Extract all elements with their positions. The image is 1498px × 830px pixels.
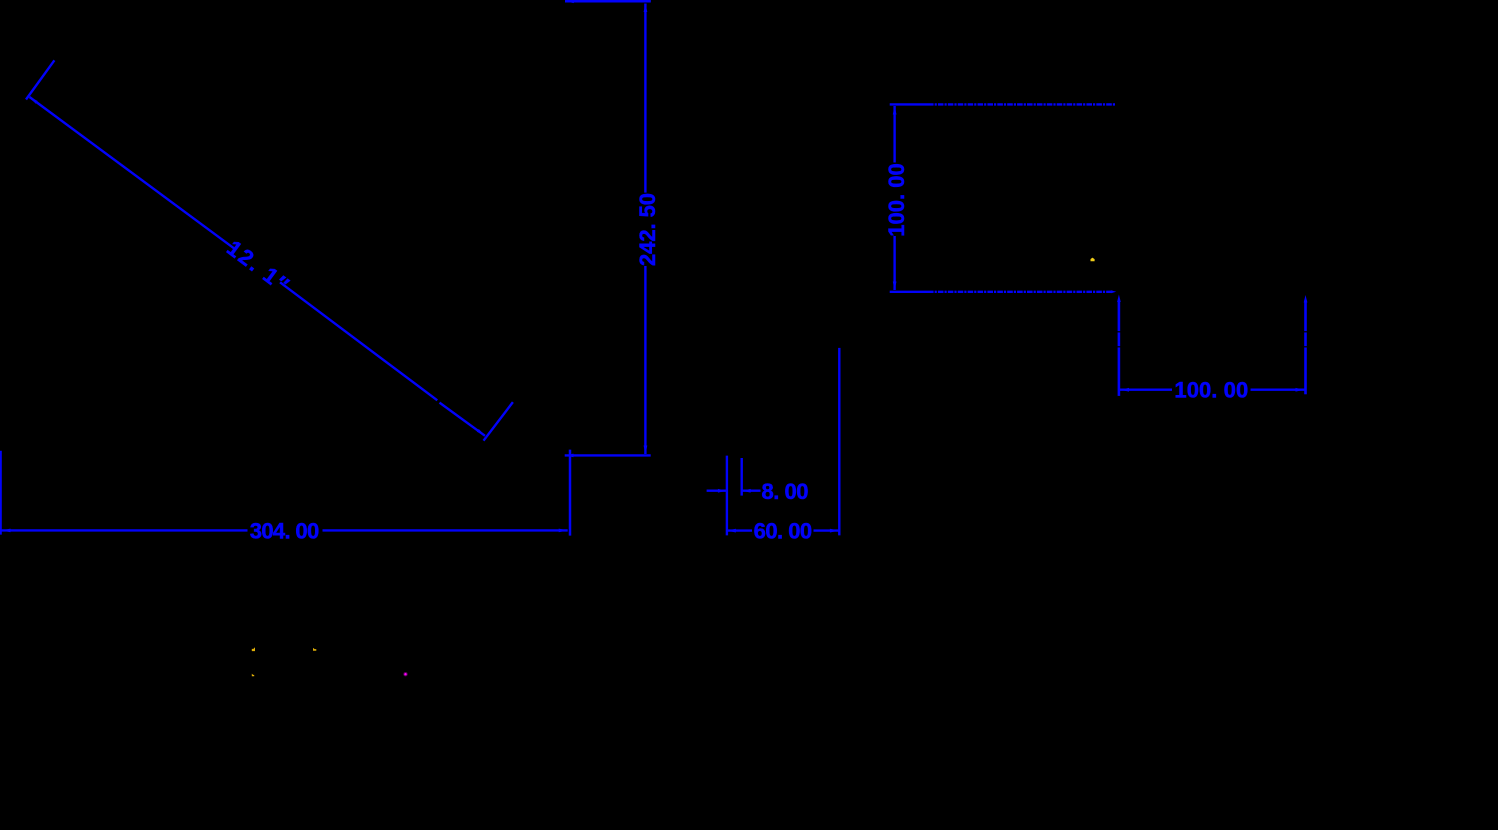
svg-text:100. 00: 100. 00	[884, 163, 909, 237]
aligned dimension 12.1": dimension line segment 2	[280, 282, 437, 400]
arrowhead 12.1" upper (points up-left)	[30, 97, 38, 104]
right shape: centerline 1 segments	[1118, 301, 1121, 332]
horizontal dimension 100.00: dimension line right segment	[1251, 389, 1305, 391]
dimension 8.00: outside dimension line right (leader to text)	[742, 490, 761, 492]
vertical dimension 242.50: dimension line upper segment	[644, 4, 646, 193]
right shape: top dash-dot line solid lead-in	[890, 103, 928, 105]
point marker yellow 2	[313, 648, 316, 651]
dimension 8.00: extension line 1	[726, 456, 728, 536]
arrowhead 100.00 vertical top (points up)	[893, 106, 897, 115]
svg-text:8. 00: 8. 00	[762, 479, 809, 504]
svg-text:100. 00: 100. 00	[1174, 378, 1248, 403]
arrowhead 8.00 left (points right)	[718, 489, 727, 493]
arrowhead centerline 2 top (points up)	[1304, 295, 1308, 303]
horizontal dimension 304.00: right extension line	[569, 450, 572, 536]
point marker yellow 1	[252, 647, 255, 651]
dimension 60.00: right extension line	[838, 348, 840, 536]
arrowhead 242.50 top (points up)	[644, 4, 648, 13]
arrowhead 8.00 right (points left)	[742, 489, 751, 493]
arrowhead 60.00 right (points right)	[830, 529, 839, 533]
arrowhead on top extension line (points left, clipped)	[565, 0, 574, 3]
dimension 60.00: dimension line left segment	[727, 529, 752, 531]
point marker yellow 3	[252, 674, 254, 677]
horizontal dimension 100.00: dimension line left segment	[1120, 389, 1172, 391]
right shape: bottom dash-dot line solid lead-in	[890, 291, 928, 293]
arrowhead 242.50 bottom (points down)	[644, 446, 648, 455]
arrowhead 100.00 vertical bottom (points down)	[893, 282, 897, 291]
dimension 8.00: outside dimension line left	[707, 490, 727, 492]
arrowhead on bottom extension line (points left)	[565, 454, 574, 458]
point marker yellow on right shape	[1091, 258, 1095, 262]
vertical dimension 242.50: bottom extension line	[565, 454, 651, 456]
arrowhead 12.1" lower (points down-right)	[477, 429, 485, 436]
vertical dimension 100.00: dimension line lower segment	[893, 236, 895, 290]
right shape: centerline 2 segments	[1304, 301, 1307, 332]
vertical dimension 242.50: top extension line (clipped at top edge)	[565, 0, 651, 3]
arrowhead 100.00 horizontal left (points left)	[1120, 388, 1129, 392]
vertical dimension 242.50: dimension line lower segment	[644, 266, 646, 454]
arrowhead 100.00 horizontal right (points right)	[1296, 388, 1305, 392]
arrowhead 304.00 right (points right)	[559, 529, 568, 533]
svg-text:242. 50: 242. 50	[635, 193, 660, 266]
dimension 60.00: dimension line right segment	[814, 529, 839, 531]
point marker magenta	[403, 672, 407, 676]
right shape: top dash-dot line	[928, 103, 1116, 105]
small arrow tip at end of bottom dash-dot line	[1111, 290, 1117, 293]
horizontal dimension 304.00: dimension line right segment	[323, 529, 568, 531]
horizontal dimension 304.00: dimension line left segment	[2, 529, 248, 531]
aligned dimension 12.1": dimension line segment 1	[30, 97, 237, 250]
horizontal dimension 304.00: left extension line	[0, 451, 2, 535]
svg-text:304. 00: 304. 00	[250, 518, 320, 543]
arrowhead 304.00 left (points left)	[2, 529, 11, 533]
aligned dimension 12.1": extension line lower	[484, 402, 513, 441]
vertical dimension 100.00: dimension line upper segment	[893, 106, 895, 163]
dimension 8.00: extension line 2	[741, 458, 743, 496]
arrowhead centerline 1 top (points up)	[1117, 295, 1121, 303]
arrowhead 60.00 left (points left)	[727, 529, 736, 533]
aligned dimension 12.1": extension line upper	[26, 60, 54, 99]
svg-text:60. 00: 60. 00	[754, 519, 813, 544]
aligned dimension 12.1": dimension line segment 3	[440, 403, 486, 436]
right shape: bottom dash-dot line	[928, 291, 1113, 293]
